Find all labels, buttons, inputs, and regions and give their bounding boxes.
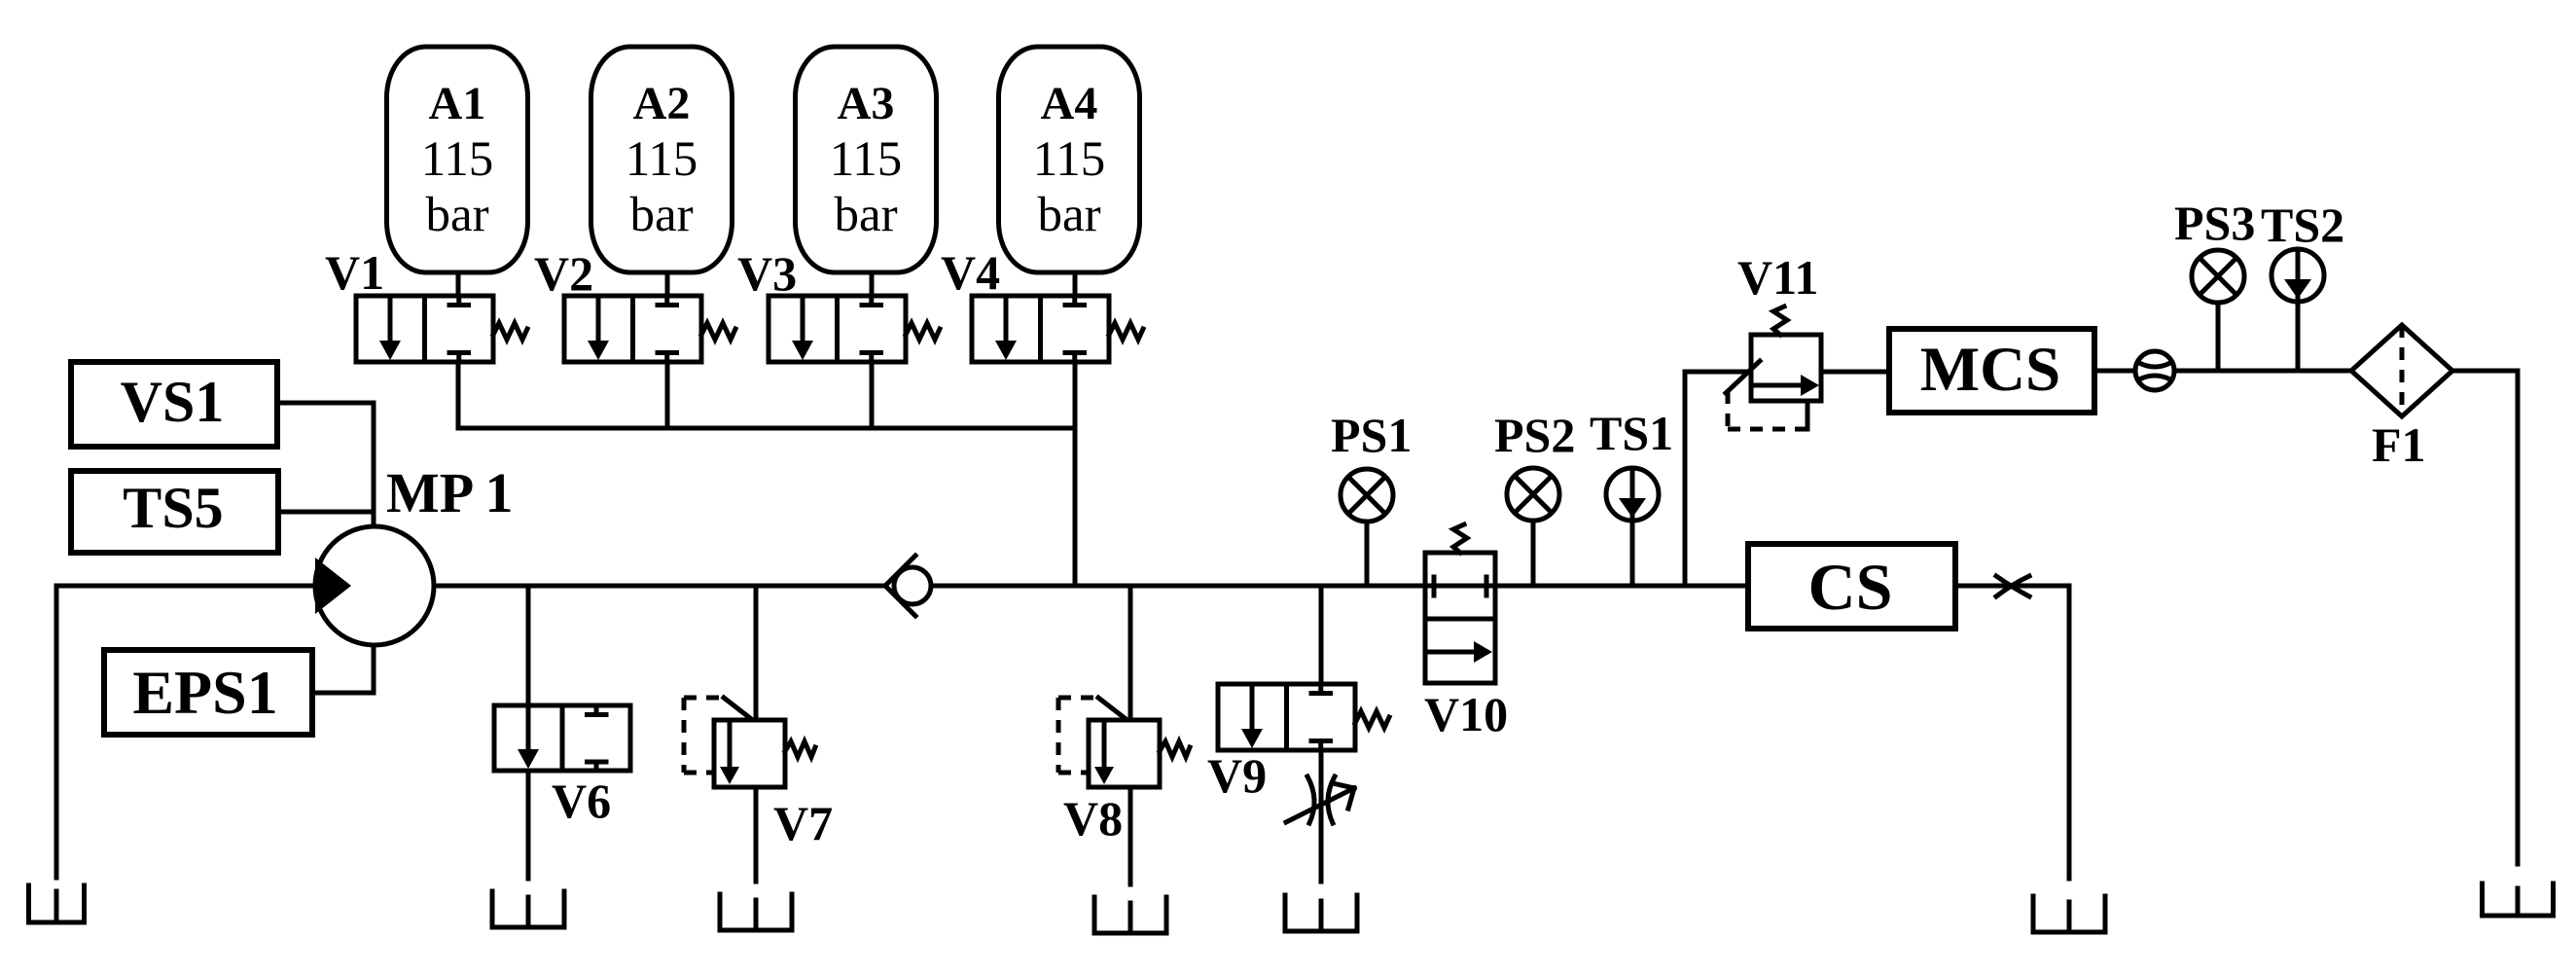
svg-text:CS: CS <box>1808 550 1893 624</box>
svg-text:A2: A2 <box>633 78 691 129</box>
svg-text:VS1: VS1 <box>121 370 225 434</box>
svg-text:bar: bar <box>425 188 488 242</box>
svg-text:F1: F1 <box>2372 417 2426 472</box>
svg-text:V11: V11 <box>1737 250 1818 305</box>
svg-text:115: 115 <box>830 132 903 187</box>
svg-text:A3: A3 <box>838 78 895 129</box>
svg-text:bar: bar <box>629 188 693 242</box>
svg-text:V2: V2 <box>534 246 593 301</box>
svg-text:V9: V9 <box>1207 748 1267 803</box>
svg-text:MP 1: MP 1 <box>386 461 513 524</box>
svg-text:V3: V3 <box>737 246 797 301</box>
svg-text:EPS1: EPS1 <box>132 658 277 727</box>
svg-text:A4: A4 <box>1041 78 1098 129</box>
svg-text:bar: bar <box>1037 188 1100 242</box>
svg-text:V10: V10 <box>1424 687 1508 741</box>
svg-text:TS1: TS1 <box>1590 406 1673 460</box>
svg-text:115: 115 <box>1033 132 1106 187</box>
svg-text:V6: V6 <box>552 774 611 828</box>
svg-text:PS3: PS3 <box>2174 196 2255 250</box>
svg-text:115: 115 <box>626 132 698 187</box>
svg-text:A1: A1 <box>429 78 486 129</box>
svg-text:TS2: TS2 <box>2261 198 2344 252</box>
svg-text:bar: bar <box>834 188 897 242</box>
svg-text:V1: V1 <box>325 245 384 300</box>
svg-text:PS2: PS2 <box>1494 408 1575 462</box>
svg-text:V4: V4 <box>941 245 1000 300</box>
svg-text:115: 115 <box>421 132 494 187</box>
svg-text:TS5: TS5 <box>123 476 223 540</box>
svg-text:V8: V8 <box>1063 791 1123 846</box>
svg-text:MCS: MCS <box>1920 335 2060 405</box>
svg-text:V7: V7 <box>773 796 833 850</box>
svg-text:PS1: PS1 <box>1331 408 1412 462</box>
